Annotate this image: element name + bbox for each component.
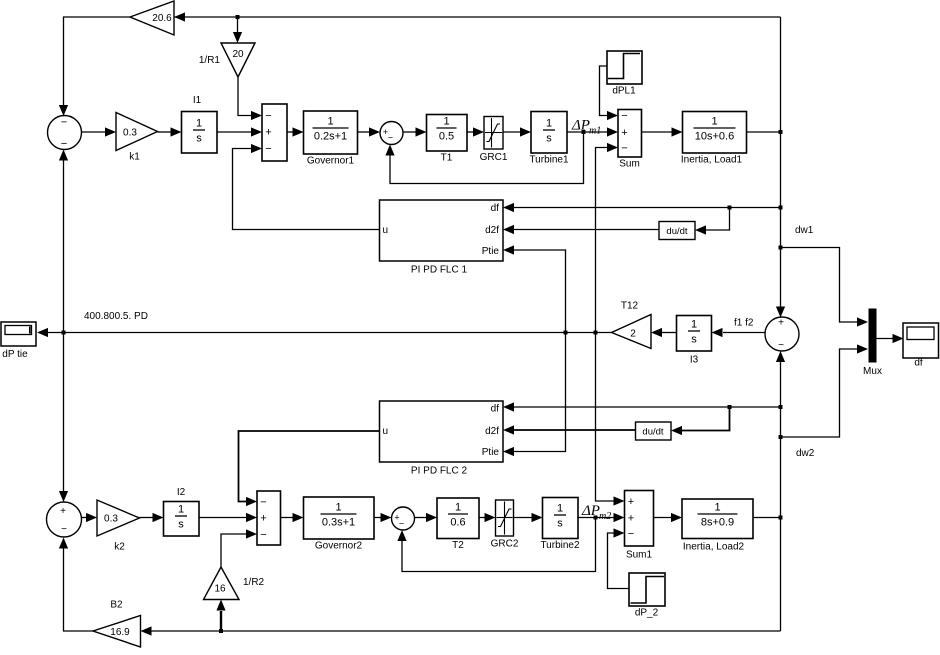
step source dP_2 — [629, 573, 665, 619]
wire Turbine1 to Sum port2 with junction — [567, 127, 618, 136]
svg-text:−: − — [621, 110, 627, 122]
svg-text:0.3s+1: 0.3s+1 — [322, 517, 355, 529]
transfer fcn Governor1 — [304, 111, 358, 167]
svg-text:1: 1 — [714, 502, 720, 514]
svg-text:Governor1: Governor1 — [307, 156, 355, 167]
svg-text:400.800.5. PD: 400.800.5. PD — [84, 311, 148, 322]
svg-text:−: − — [61, 138, 67, 150]
wire junction to 1/R2 gain — [216, 600, 225, 632]
svg-text:+: + — [628, 513, 634, 525]
wire Inertia Load2 to bus dw2 — [753, 517, 781, 519]
svg-text:Governor2: Governor2 — [315, 541, 363, 552]
svg-text:I3: I3 — [690, 355, 699, 366]
subsystem PI PD FLC 1 — [380, 200, 504, 276]
sum block Sum2rect (-+-) — [257, 491, 281, 545]
sum circle T2 loop (+-) — [392, 507, 415, 530]
svg-text:+: + — [621, 127, 627, 139]
wire du-dt1 to FLC1 d2f — [503, 225, 659, 234]
svg-text:1: 1 — [546, 118, 552, 130]
wire k1 to I1 — [158, 127, 182, 136]
node junction dw1 on bus — [779, 130, 783, 134]
svg-text:20: 20 — [232, 49, 244, 60]
svg-text:s: s — [691, 334, 697, 346]
gain B2 16.9 — [93, 600, 141, 648]
svg-text:du/dt: du/dt — [642, 427, 663, 438]
svg-text:dw1: dw1 — [795, 225, 814, 236]
wire I1 to Sum1rect port2 — [217, 127, 262, 136]
node junction to du-dt 2 — [728, 405, 732, 409]
svg-text:GRC1: GRC1 — [480, 152, 508, 163]
svg-text:dP_2: dP_2 — [635, 608, 659, 619]
wire Sum2rect to Governor2 — [281, 513, 304, 522]
wire Sum to Inertia Load1 — [642, 127, 683, 136]
svg-text:16.9: 16.9 — [110, 627, 130, 638]
wire right bus upper (dw1) — [776, 17, 785, 318]
transfer fcn Inertia Load1 — [681, 112, 747, 166]
gain 1/R1 value 20 — [199, 43, 255, 77]
wire Inertia Load1 to bus dw1 — [747, 131, 781, 133]
svg-text:20.6: 20.6 — [152, 13, 172, 24]
svg-text:+: + — [628, 496, 634, 508]
wire sum to T2 — [415, 513, 438, 522]
node junction dPm1 feedback — [582, 130, 586, 134]
wire right bus lower (dw2) — [776, 351, 785, 631]
sum circle f1 f2 (+-) — [765, 317, 799, 351]
wire T2 to GRC2 — [479, 513, 496, 522]
annotation 400.800.5. PD — [84, 311, 148, 322]
svg-text:Inertia, Load2: Inertia, Load2 — [683, 542, 745, 553]
svg-text:1: 1 — [196, 118, 202, 130]
wire FLC2 u to Sum2rect port1 — [239, 431, 380, 506]
svg-text:s: s — [546, 133, 552, 145]
wire 1/R1 to Sum1rect port1 — [238, 77, 262, 120]
wire df2 to FLC2 df — [503, 402, 781, 411]
node junction dPm2 feedback — [594, 516, 598, 520]
svg-text:k2: k2 — [114, 542, 125, 553]
wire tie to Sum1 port1 (down) — [596, 333, 625, 506]
step source dPL1 — [607, 51, 642, 97]
transfer fcn T2 — [437, 498, 479, 551]
svg-text:d2f: d2f — [485, 426, 499, 437]
wire Turbine2 to Sum1 port2 with junction — [578, 513, 625, 522]
node junction df1 line — [779, 206, 783, 210]
svg-text:Ptie: Ptie — [482, 447, 500, 458]
gain k2 0.3 — [97, 500, 140, 553]
wire 1/R2 to Sum2rect port3 — [221, 529, 257, 567]
svg-text:−: − — [628, 528, 634, 540]
wire branch to du-dt 2 — [671, 407, 730, 435]
wire Governor2 to sum circle T2loop — [374, 513, 392, 522]
wire FLC1 u to Sum1rect port3 — [233, 144, 380, 230]
svg-text:Sum: Sum — [619, 159, 640, 170]
svg-text:s: s — [196, 133, 202, 145]
svg-text:+: + — [260, 513, 266, 525]
transfer fcn Inertia Load2 — [682, 499, 753, 553]
svg-text:Inertia, Load1: Inertia, Load1 — [681, 155, 743, 166]
node junction tie to Sum ports — [594, 331, 598, 335]
wire Sum1rect to Governor1 — [287, 127, 304, 136]
svg-text:GRC2: GRC2 — [491, 539, 519, 550]
svg-text:I2: I2 — [177, 487, 186, 498]
wire f1f2 sum to I3 — [712, 328, 765, 337]
wire dP_2 to Sum1 port3 — [608, 528, 630, 588]
svg-text:1/R2: 1/R2 — [243, 577, 265, 588]
svg-text:df: df — [491, 203, 500, 214]
display dP tie — [1, 322, 36, 360]
sum block Sum1rect (-+-) — [262, 104, 287, 161]
wire tie line to display — [37, 328, 612, 337]
wire ACE bus lower (tie to sum A2) — [59, 333, 68, 503]
svg-text:10s+0.6: 10s+0.6 — [695, 131, 734, 143]
svg-text:1/R1: 1/R1 — [199, 55, 221, 66]
svg-text:−: − — [265, 110, 271, 122]
wire sum to T1 — [403, 127, 427, 136]
svg-text:−: − — [265, 143, 271, 155]
wire tie to FLC1 Ptie — [503, 245, 566, 332]
wire T2 rate feedback loop — [397, 518, 595, 572]
gain 1/R2 value 16 — [204, 567, 265, 600]
svg-text:PI PD FLC 2: PI PD FLC 2 — [411, 466, 468, 477]
wire tie to Sum port3 (up) — [596, 143, 619, 333]
integrator Turbine1 1/s — [529, 112, 569, 166]
svg-text:B2: B2 — [110, 600, 123, 611]
scope df — [903, 323, 939, 369]
svg-text:1: 1 — [711, 116, 717, 128]
svg-text:0.3: 0.3 — [104, 514, 118, 525]
svg-text:0.5: 0.5 — [439, 131, 454, 143]
svg-text:−: − — [778, 340, 784, 351]
derivative du/dt 2 — [636, 422, 672, 440]
wire tie to FLC2 Ptie — [503, 333, 566, 457]
svg-text:s: s — [178, 519, 184, 531]
wire I2 to Sum2rect port2 — [199, 513, 257, 522]
svg-text:2: 2 — [630, 329, 636, 340]
svg-text:1: 1 — [443, 116, 449, 128]
svg-text:Ptie: Ptie — [482, 246, 500, 257]
svg-text:dPL1: dPL1 — [612, 86, 636, 97]
integrator I3 1/s — [677, 316, 712, 366]
svg-text:u: u — [383, 225, 389, 236]
transfer fcn Governor2 — [304, 497, 375, 552]
wire k2 to I2 — [140, 513, 164, 522]
node junction feed to 1/R1 — [236, 15, 240, 19]
wire Mux to scope df — [877, 334, 904, 343]
node junction tie to ACE bus — [62, 331, 66, 335]
svg-text:T12: T12 — [621, 301, 639, 312]
gain T12 value 2 — [612, 301, 663, 349]
svg-text:1: 1 — [557, 503, 563, 515]
svg-text:f1 f2: f1 f2 — [734, 318, 754, 329]
wire dPL1 to Sum port1 — [600, 66, 619, 120]
saturation GRC1 — [480, 117, 508, 164]
svg-text:m2: m2 — [599, 511, 611, 522]
wire ACE bus upper (tie to sum A1) — [59, 150, 68, 333]
label dw1 — [795, 225, 814, 236]
label f1 f2 — [734, 318, 754, 329]
svg-text:−: − — [621, 143, 627, 155]
integrator I1 1/s — [182, 95, 218, 153]
integrator I2 1/s — [164, 487, 200, 536]
svg-text:−: − — [260, 529, 266, 541]
derivative du/dt 1 — [659, 222, 695, 240]
svg-text:m1: m1 — [589, 126, 601, 137]
gain B1 20.6 — [130, 1, 185, 35]
svg-text:−: − — [61, 524, 67, 535]
svg-text:ΔP: ΔP — [581, 503, 600, 519]
wire dw1 to Mux in1 — [781, 248, 869, 327]
svg-text:T1: T1 — [441, 153, 453, 164]
transfer fcn T1 — [427, 115, 468, 164]
svg-text:Turbine1: Turbine1 — [529, 155, 569, 166]
wire dw2 to Mux in2 — [781, 344, 869, 437]
wire GRC1 to Turbine1 — [503, 127, 531, 136]
svg-text:16: 16 — [214, 584, 226, 595]
wire T1 rate feedback loop — [385, 132, 583, 184]
sum circle A2 (ACE2) — [47, 502, 82, 537]
wire I3 to T12 — [662, 332, 677, 334]
svg-text:u: u — [383, 426, 389, 437]
label dw2 — [796, 448, 815, 459]
svg-text:0.2s+1: 0.2s+1 — [314, 131, 347, 143]
sum block Sum1 (++-) — [625, 491, 654, 561]
svg-text:+: + — [265, 127, 271, 139]
svg-text:−: − — [388, 133, 393, 143]
svg-text:dw2: dw2 — [796, 448, 815, 459]
svg-text:d2f: d2f — [485, 225, 499, 236]
svg-text:8s+0.9: 8s+0.9 — [701, 517, 734, 529]
svg-text:PI PD FLC 1: PI PD FLC 1 — [411, 265, 468, 276]
wire T1 to GRC1 — [467, 127, 484, 136]
wire sum A1 to gain k1 — [82, 127, 117, 136]
wire sum A2 to gain k2 — [82, 513, 98, 522]
label dPm2 — [581, 503, 611, 522]
wire GRC2 to Turbine2 — [514, 513, 543, 522]
svg-text:k1: k1 — [129, 152, 140, 163]
label dPm1 — [571, 118, 601, 137]
node junction dw1 to Mux — [779, 246, 783, 250]
svg-text:1: 1 — [455, 502, 461, 514]
node junction dw2 to Mux — [779, 435, 783, 439]
node junction tie to Ptie ports — [564, 331, 568, 335]
gain k1 0.3 — [116, 113, 158, 163]
svg-text:df: df — [914, 358, 923, 369]
svg-text:T2: T2 — [452, 540, 464, 551]
svg-text:Turbine2: Turbine2 — [540, 540, 580, 551]
wire df1 to FLC1 df — [503, 203, 781, 212]
mux Mux — [863, 309, 882, 378]
sum circle A1 (ACE1) — [48, 116, 82, 151]
svg-text:Sum1: Sum1 — [626, 550, 653, 561]
node junction to du-dt 1 — [728, 206, 732, 210]
svg-text:1: 1 — [327, 116, 333, 128]
integrator Turbine2 1/s — [540, 498, 580, 552]
svg-text:+: + — [778, 318, 784, 329]
svg-text:1: 1 — [691, 319, 697, 331]
wire Sum1 to Inertia Load2 — [654, 513, 683, 522]
svg-text:ΔP: ΔP — [571, 118, 590, 134]
node junction to 1/R2 — [219, 629, 223, 633]
svg-text:0.3: 0.3 — [123, 128, 137, 139]
svg-text:+: + — [60, 506, 66, 517]
wire B2 output to Sum circle A2 — [59, 538, 93, 632]
node junction dw2 on bus — [779, 516, 783, 520]
svg-text:df: df — [491, 404, 500, 415]
saturation GRC2 — [491, 500, 519, 550]
wire bottom feedback line dw2 — [141, 626, 781, 635]
svg-text:1: 1 — [178, 504, 184, 516]
subsystem PI PD FLC 2 — [380, 401, 504, 477]
svg-text:−: − — [260, 497, 266, 509]
svg-text:Mux: Mux — [863, 366, 882, 377]
svg-text:du/dt: du/dt — [666, 226, 687, 237]
node junction df2 line — [779, 405, 783, 409]
wire du-dt2 to FLC2 d2f — [503, 425, 636, 434]
wire net B1-input top line (dw1 feedback) — [174, 16, 781, 18]
svg-text:−: − — [399, 519, 404, 529]
svg-text:dP tie: dP tie — [2, 349, 28, 360]
svg-text:s: s — [557, 518, 563, 530]
sum circle T1 loop (+-) — [380, 122, 403, 145]
svg-text:−: − — [61, 117, 67, 129]
svg-text:1: 1 — [335, 502, 341, 514]
svg-text:0.6: 0.6 — [450, 517, 465, 529]
wire Governor1 to sum circle T1loop — [358, 127, 381, 136]
wire branch to du-dt 1 — [695, 208, 730, 235]
wire B1 output to Sum circle A1 — [59, 17, 130, 116]
wire junction to 1/R1 gain — [233, 17, 242, 43]
sum block Sum (-+-) — [618, 110, 642, 170]
svg-text:I1: I1 — [193, 95, 202, 106]
